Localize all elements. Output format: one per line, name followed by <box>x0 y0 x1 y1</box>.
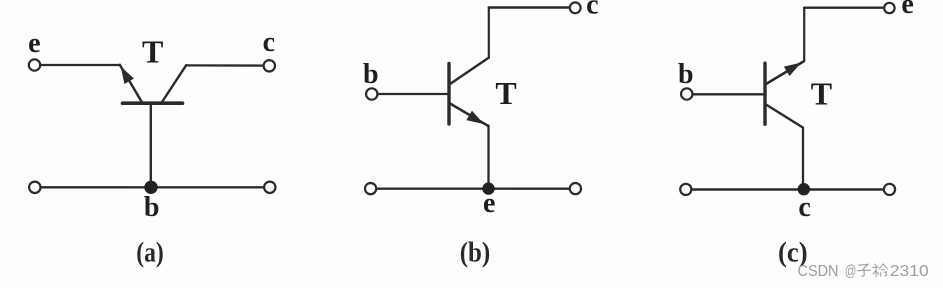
svg-text:(b): (b) <box>460 237 491 269</box>
transistor T collector lead (b) <box>450 58 489 85</box>
bottom wire (b) <box>376 187 570 189</box>
svg-text:T: T <box>811 75 832 111</box>
svg-text:T: T <box>495 75 516 111</box>
svg-text:c: c <box>586 0 598 21</box>
terminal bottom-right (c) <box>884 184 895 195</box>
svg-text:T: T <box>142 34 163 70</box>
terminal bottom-right (b) <box>570 183 581 194</box>
svg-text:c: c <box>263 27 275 58</box>
svg-text:b: b <box>678 59 694 90</box>
junction node b (a) <box>144 181 157 194</box>
terminal bottom-right (a) <box>264 182 275 193</box>
bottom wire (a) <box>41 186 265 188</box>
wire collector bend to c (a) <box>186 64 264 66</box>
transistor T emitter lead with arrow (b) <box>450 104 488 126</box>
junction node e (b) <box>482 182 494 194</box>
terminal c (b) <box>570 2 581 13</box>
svg-text:c: c <box>798 192 810 223</box>
wire b to base (c) <box>693 93 764 95</box>
terminal c (a) <box>264 60 275 71</box>
transistor T base bar (b) <box>447 64 450 125</box>
junction node c (c) <box>798 183 810 195</box>
svg-text:e: e <box>483 188 495 219</box>
transistor T base bar (a) <box>123 101 183 105</box>
terminal e (c) <box>884 3 894 13</box>
terminal b (c) <box>681 88 692 99</box>
watermark glyph jin <box>873 264 888 277</box>
wire b to base (b) <box>378 93 448 95</box>
transistor T emitter lead with arrow (c) <box>766 62 804 85</box>
wire collector vertical (c) <box>802 128 804 190</box>
wire top to c (b) <box>489 6 570 8</box>
svg-text:b: b <box>144 192 160 223</box>
transistor T collector lead (c) <box>766 105 803 128</box>
svg-text:e: e <box>901 0 913 20</box>
svg-text:(a): (a) <box>136 237 164 269</box>
wire e to emitter bend (a) <box>40 64 119 66</box>
wire emitter vertical (b) <box>487 126 489 189</box>
transistor T collector lead (a) <box>162 65 186 102</box>
terminal bottom-left (a) <box>29 182 40 193</box>
wire collector vertical (b) <box>488 8 490 58</box>
terminal bottom-left (c) <box>680 184 691 195</box>
svg-text:2310: 2310 <box>890 263 929 280</box>
svg-text:@: @ <box>845 263 857 280</box>
terminal e (a) <box>29 59 40 70</box>
bottom wire (c) <box>691 188 884 190</box>
watermark glyph zi <box>858 264 871 276</box>
terminal b (b) <box>366 88 377 99</box>
wire base lead down (a) <box>150 103 152 187</box>
svg-text:CSDN: CSDN <box>798 263 839 280</box>
svg-text:b: b <box>363 59 379 90</box>
wire top to e (c) <box>804 6 884 8</box>
transistor T emitter lead with arrow (a) <box>120 65 142 102</box>
terminal bottom-left (b) <box>365 183 376 194</box>
svg-text:e: e <box>28 28 40 59</box>
wire emitter vertical (c) <box>803 8 805 61</box>
transistor T base bar (c) <box>763 63 766 124</box>
